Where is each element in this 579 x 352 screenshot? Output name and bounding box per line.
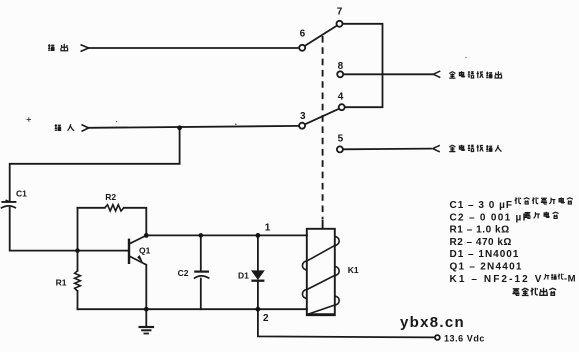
svg-text:R1: R1: [56, 278, 67, 288]
svg-text:R1 – 1.0 kΩ: R1 – 1.0 kΩ: [450, 225, 510, 236]
svg-text:2: 2: [263, 313, 269, 324]
svg-text:6: 6: [300, 29, 306, 40]
svg-text:Q1: Q1: [139, 245, 151, 255]
svg-text:C2 – 0 001 µF: C2 – 0 001 µF: [450, 212, 530, 223]
svg-text:R2: R2: [105, 192, 116, 202]
svg-text:D1 – 1N4001: D1 – 1N4001: [450, 249, 520, 260]
svg-text:C1: C1: [16, 189, 27, 199]
svg-text:3: 3: [300, 111, 306, 122]
svg-text:Q1 – 2N4401: Q1 – 2N4401: [450, 262, 523, 273]
svg-text:K1 – NF2-12 V: K1 – NF2-12 V: [450, 274, 544, 285]
svg-text:K1: K1: [348, 265, 359, 275]
svg-text:C2: C2: [178, 268, 189, 278]
svg-text:R2 – 470 kΩ: R2 – 470 kΩ: [450, 237, 512, 248]
svg-text:ybx8.cn: ybx8.cn: [400, 314, 465, 331]
svg-text:D1: D1: [238, 271, 249, 281]
svg-text:8: 8: [338, 61, 344, 72]
svg-text:-M: -M: [564, 274, 576, 285]
svg-text:1: 1: [265, 223, 271, 234]
svg-text:13.6 Vdc: 13.6 Vdc: [444, 333, 485, 343]
svg-text:5: 5: [338, 134, 344, 145]
svg-text:4: 4: [338, 92, 344, 103]
svg-text:C1 – 3 0 µF: C1 – 3 0 µF: [450, 200, 513, 211]
svg-text:7: 7: [337, 7, 343, 18]
